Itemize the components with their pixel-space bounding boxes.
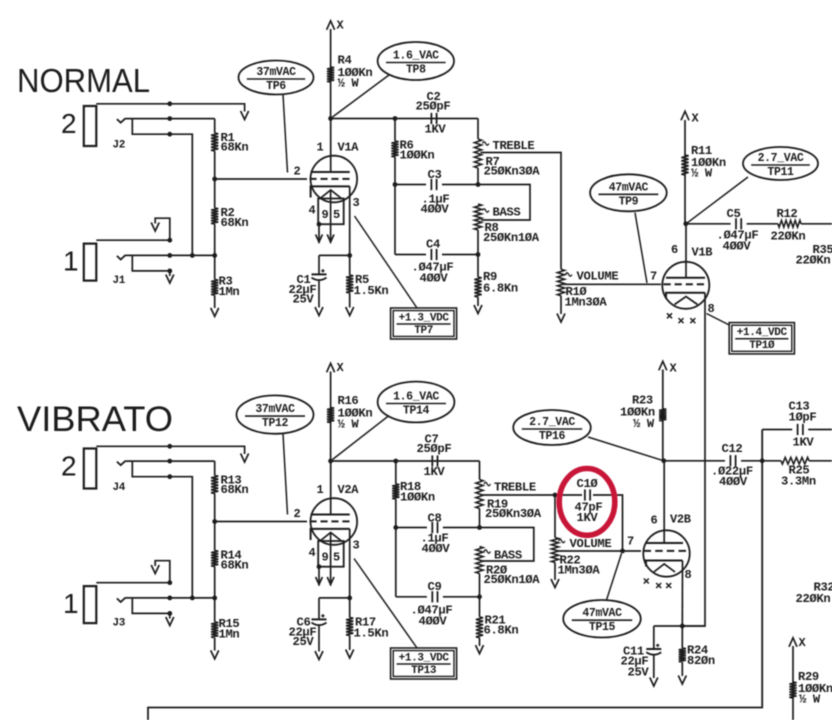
supply arrow X	[789, 638, 797, 647]
ground arrow	[241, 111, 249, 120]
svg-text:7: 7	[627, 535, 634, 549]
svg-text:22ØKn: 22ØKn	[796, 254, 831, 268]
svg-text:2.7_VAC: 2.7_VAC	[758, 152, 804, 165]
V1B cathode pin 8 lead	[682, 293, 705, 626]
capacitor C4	[430, 249, 432, 260]
svg-text:47mVAC: 47mVAC	[582, 607, 622, 620]
svg-text:5: 5	[333, 551, 340, 565]
svg-text:1.6_VAC: 1.6_VAC	[393, 50, 439, 63]
wire	[126, 118, 215, 120]
svg-text:TP9: TP9	[619, 195, 639, 208]
test point TP6 oval	[239, 61, 314, 95]
node	[167, 580, 172, 585]
heater pin 4 lead	[318, 567, 320, 586]
ground arrow	[151, 565, 159, 574]
node	[393, 116, 398, 121]
TP14 pointer line	[333, 416, 390, 460]
test point TP13 box	[391, 648, 457, 679]
resistor R23	[659, 409, 666, 421]
svg-text:4: 4	[309, 204, 316, 218]
V1B plate	[666, 277, 705, 279]
svg-text:TP14: TP14	[403, 405, 430, 418]
svg-text:X: X	[337, 361, 345, 375]
svg-text:25V: 25V	[628, 666, 650, 680]
treble wiper wire	[482, 494, 555, 496]
ground arrow	[474, 305, 482, 314]
svg-text:1ØØKn: 1ØØKn	[400, 149, 435, 163]
node	[212, 177, 217, 182]
bass wiper loop	[478, 185, 530, 221]
triode V2A envelope	[311, 498, 358, 545]
svg-text:+1.3_VDC: +1.3_VDC	[399, 653, 450, 665]
svg-text:25ØKn1ØA: 25ØKn1ØA	[484, 573, 541, 587]
resistor R18	[395, 461, 397, 484]
wire	[664, 460, 725, 462]
wire	[395, 528, 397, 597]
capacitor C8 row wire	[396, 527, 427, 529]
volume wiper wire	[557, 550, 641, 552]
svg-text:4ØØV: 4ØØV	[422, 542, 451, 556]
svg-text:37mVAC: 37mVAC	[256, 66, 296, 79]
resistor R1	[214, 119, 216, 133]
svg-text:1KV: 1KV	[793, 436, 815, 450]
potentiometer R20 BASS	[476, 547, 483, 574]
svg-text:4: 4	[309, 546, 316, 560]
wire	[477, 119, 479, 140]
svg-text:+1.3_VDC: +1.3_VDC	[399, 313, 450, 325]
capacitor C2	[430, 113, 432, 124]
svg-text:1KV: 1KV	[577, 511, 599, 525]
svg-text:V2A: V2A	[338, 483, 360, 497]
node	[661, 458, 666, 463]
wire	[331, 118, 478, 120]
svg-text:6.8Kn: 6.8Kn	[484, 624, 519, 638]
heater pin 5 lead	[330, 190, 332, 243]
node	[328, 459, 333, 464]
svg-text:47mVAC: 47mVAC	[609, 181, 649, 194]
test point TP8 oval	[378, 42, 454, 80]
cw mark	[484, 482, 490, 485]
heater connection x	[679, 318, 684, 323]
test point TP14 oval	[378, 382, 455, 423]
V2B heater	[654, 564, 675, 572]
V1B heater	[675, 297, 698, 305]
triode V1B envelope	[662, 262, 709, 309]
svg-text:25ØpF: 25ØpF	[416, 100, 451, 114]
jack J2 tip contact	[117, 118, 126, 122]
TP9 pointer line	[635, 213, 647, 283]
capacitor C1	[318, 255, 320, 274]
V2B plate lead pin 6	[663, 461, 665, 543]
ground arrow	[211, 650, 219, 659]
node	[347, 596, 352, 601]
svg-text:C5: C5	[727, 207, 741, 221]
resistor R2	[214, 179, 216, 208]
svg-text:BASS: BASS	[493, 206, 521, 220]
svg-text:1ØpF: 1ØpF	[789, 411, 817, 425]
svg-text:1Mn3ØA: 1Mn3ØA	[565, 296, 608, 310]
cw mark	[484, 550, 490, 553]
jack J4 tip contact	[117, 461, 126, 465]
svg-text:22ØKn: 22ØKn	[796, 592, 831, 606]
node	[477, 594, 482, 599]
potentiometer R8 BASS	[474, 204, 481, 230]
V2A plate	[311, 514, 350, 516]
wire	[479, 461, 481, 480]
ground arrow	[151, 223, 159, 232]
test point TP7 box	[391, 308, 457, 339]
node	[620, 549, 625, 554]
svg-text:4ØØV: 4ØØV	[421, 203, 450, 217]
node	[167, 444, 172, 449]
svg-text:4ØØV: 4ØØV	[419, 615, 448, 629]
TP13 pointer line	[354, 559, 417, 649]
capacitor C9	[431, 591, 433, 602]
V1A heater	[320, 190, 342, 199]
resistor R6	[394, 119, 396, 142]
V1A heater pin box	[318, 199, 344, 225]
TP15 pointer line	[607, 554, 622, 601]
node	[393, 525, 398, 530]
svg-text:68Kn: 68Kn	[221, 559, 249, 573]
svg-text:V1B: V1B	[692, 246, 713, 260]
svg-text:2: 2	[61, 108, 77, 139]
node	[167, 238, 172, 243]
svg-text:TP16: TP16	[539, 430, 566, 443]
svg-text:9: 9	[322, 208, 329, 222]
triode V1A envelope	[311, 156, 358, 203]
svg-text:TP12: TP12	[262, 417, 289, 430]
node	[167, 116, 172, 121]
svg-text:VOLUME: VOLUME	[570, 537, 612, 551]
jack J1 body	[84, 244, 97, 281]
capacitor C8	[431, 522, 433, 533]
ground arrow	[166, 617, 174, 626]
test point TP15 oval	[563, 600, 641, 638]
heater connection x	[656, 583, 661, 588]
capacitor C10	[584, 489, 586, 500]
heater connection x	[666, 583, 671, 588]
svg-text:J2: J2	[113, 140, 126, 152]
V2A heater	[320, 533, 342, 542]
svg-text:TP6: TP6	[266, 80, 286, 93]
heater arrow	[316, 577, 323, 585]
svg-text:NORMAL: NORMAL	[17, 62, 150, 99]
resistor R16	[327, 408, 334, 423]
jack J2 body	[84, 106, 97, 146]
svg-text:6: 6	[651, 514, 658, 528]
wire	[126, 597, 215, 599]
svg-text:3: 3	[353, 196, 360, 210]
svg-text:82Øn: 82Øn	[687, 654, 715, 668]
node	[476, 182, 481, 187]
V2A cathode	[311, 529, 350, 540]
heater arrow	[327, 577, 334, 585]
V2A plate lead pin 1	[330, 461, 332, 515]
resistor R17	[349, 598, 351, 618]
heater connection x	[644, 579, 649, 584]
svg-text:TREBLE: TREBLE	[494, 481, 536, 495]
node	[347, 253, 352, 258]
svg-text:1Mn: 1Mn	[219, 628, 240, 642]
svg-text:TREBLE: TREBLE	[493, 139, 535, 153]
svg-text:6: 6	[671, 243, 678, 257]
highlight ellipse around C10	[559, 469, 615, 536]
volume wiper wire	[563, 283, 661, 285]
V1A cathode	[311, 186, 350, 197]
V2A grid	[310, 520, 317, 522]
capacitor C11	[653, 626, 655, 649]
wire to tremolo section	[148, 430, 762, 720]
V1B plate lead pin 6	[685, 224, 687, 278]
svg-text:1: 1	[317, 483, 324, 497]
cw mark	[559, 539, 565, 542]
node	[683, 221, 688, 226]
ground arrow	[678, 676, 686, 685]
supply arrow X	[659, 361, 667, 370]
TP6 pointer line	[283, 94, 288, 172]
wire	[215, 178, 307, 180]
jack J1 tip contact	[117, 255, 126, 259]
svg-text:1: 1	[63, 246, 79, 277]
svg-text:1KV: 1KV	[425, 123, 447, 137]
svg-text:TP8: TP8	[406, 64, 426, 77]
svg-text:V1A: V1A	[338, 141, 360, 155]
node	[167, 596, 172, 601]
svg-text:C4: C4	[426, 238, 440, 252]
svg-text:9: 9	[322, 551, 329, 565]
svg-text:J4: J4	[113, 482, 126, 494]
svg-text:2: 2	[294, 165, 301, 179]
node	[190, 253, 195, 258]
wire	[96, 104, 244, 112]
supply arrow X	[327, 21, 335, 30]
wire	[215, 521, 307, 523]
triode V2B envelope	[643, 530, 689, 576]
V1A plate	[311, 171, 350, 173]
ground arrow	[346, 650, 354, 659]
svg-text:TP15: TP15	[589, 621, 616, 634]
potentiometer R7 TREBLE	[474, 139, 481, 168]
wire	[96, 446, 244, 454]
svg-text:J1: J1	[113, 275, 126, 287]
ground hook	[155, 218, 170, 240]
capacitor C13	[797, 424, 799, 435]
node	[167, 269, 172, 274]
test point TP10 box	[729, 323, 794, 354]
ground arrow	[551, 579, 559, 588]
cw mark	[483, 209, 489, 212]
svg-text:1: 1	[317, 141, 324, 155]
resistor R4	[327, 67, 334, 82]
svg-text:25ØpF: 25ØpF	[417, 442, 452, 456]
resistor R14	[214, 522, 216, 551]
node	[167, 132, 172, 137]
test point TP9 oval	[590, 174, 667, 211]
supply arrow X	[327, 363, 335, 372]
svg-text:V2B: V2B	[670, 513, 691, 527]
jack J3 body	[84, 586, 97, 623]
resistor R24	[681, 626, 683, 648]
wire	[96, 582, 170, 584]
supply arrow X	[681, 111, 689, 120]
svg-text:C3: C3	[428, 168, 442, 182]
svg-text:+1.4_VDC: +1.4_VDC	[737, 327, 788, 339]
TP7 pointer line	[355, 216, 418, 308]
ground stub	[169, 613, 171, 618]
treble wiper wire	[481, 153, 562, 270]
node	[212, 596, 217, 601]
heater pin 5 lead	[330, 533, 332, 586]
svg-text:C9: C9	[428, 580, 442, 594]
svg-text:VOLUME: VOLUME	[577, 270, 619, 284]
svg-text:X: X	[799, 636, 807, 650]
resistor R12	[778, 220, 801, 227]
svg-text:1Mn3ØA: 1Mn3ØA	[558, 564, 601, 578]
svg-text:25ØKn3ØA: 25ØKn3ØA	[484, 165, 541, 179]
capacitor C13 branch	[762, 429, 792, 431]
svg-text:1Mn: 1Mn	[219, 285, 240, 299]
svg-text:5: 5	[333, 208, 340, 222]
node	[167, 253, 172, 258]
svg-text:R12: R12	[777, 207, 798, 221]
node	[167, 459, 172, 464]
node	[477, 525, 482, 530]
V2B cathode pin 8 lead	[681, 561, 683, 627]
capacitor C3 row wire	[395, 184, 426, 186]
V1B grid	[664, 283, 671, 285]
test point TP12 oval	[237, 395, 314, 433]
svg-text:25V: 25V	[293, 293, 315, 307]
node	[212, 519, 217, 524]
ground arrow	[211, 308, 219, 317]
wire	[319, 254, 350, 256]
ground arrow	[476, 645, 484, 654]
wire	[801, 223, 832, 225]
svg-text:68Kn: 68Kn	[221, 483, 249, 497]
resistor R25	[781, 457, 809, 464]
svg-text:C1Ø: C1Ø	[577, 477, 599, 491]
bass wiper loop	[480, 528, 534, 562]
svg-text:2: 2	[294, 507, 301, 521]
svg-text:3: 3	[353, 539, 360, 553]
capacitor C9 row wire	[396, 596, 427, 598]
TP8 pointer line	[333, 75, 390, 117]
svg-text:22ØKn: 22ØKn	[771, 230, 806, 244]
node	[476, 252, 481, 257]
wire	[96, 239, 170, 241]
ground stub	[169, 271, 171, 276]
svg-text:2: 2	[61, 451, 77, 482]
jack J4 body	[84, 449, 97, 489]
V1A grid	[310, 178, 317, 180]
V1A plate lead pin 1	[330, 119, 332, 173]
svg-text:X: X	[670, 362, 678, 376]
resistor R5	[349, 255, 351, 275]
svg-text:½ W: ½ W	[338, 77, 360, 91]
svg-text:4ØØV: 4ØØV	[719, 475, 748, 489]
wire	[331, 460, 480, 462]
wire	[394, 185, 396, 255]
node	[167, 474, 172, 479]
potentiometer R19 TREBLE	[476, 480, 483, 509]
cathode pin 3 lead	[349, 186, 351, 255]
TP11 pointer line	[686, 177, 748, 224]
V1B cathode	[666, 293, 705, 299]
test point TP11 oval	[743, 147, 818, 180]
svg-text:2.7_VAC: 2.7_VAC	[529, 416, 575, 429]
svg-text:½ W: ½ W	[691, 167, 713, 181]
node	[760, 458, 765, 463]
svg-text:68Kn: 68Kn	[221, 216, 249, 230]
svg-text:½ W: ½ W	[338, 418, 360, 432]
svg-text:C8: C8	[428, 512, 442, 526]
svg-text:TP13: TP13	[411, 665, 437, 677]
svg-text:4ØØV: 4ØØV	[420, 272, 449, 286]
resistor R13	[214, 461, 216, 475]
ground arrow	[166, 275, 174, 284]
V2B plate	[646, 542, 684, 544]
node	[167, 101, 172, 106]
heater connection x	[667, 313, 672, 318]
svg-text:4ØØV: 4ØØV	[723, 240, 752, 254]
node	[680, 624, 685, 629]
svg-text:1.5Kn: 1.5Kn	[354, 627, 389, 641]
svg-text:1.6_VAC: 1.6_VAC	[393, 391, 439, 404]
node	[553, 493, 558, 498]
wire	[132, 598, 170, 614]
node	[393, 182, 398, 187]
resistor R21	[479, 597, 481, 617]
wire	[686, 223, 731, 225]
svg-text:TP11: TP11	[767, 166, 794, 179]
resistor R11	[681, 155, 688, 175]
ground arrow	[557, 314, 565, 323]
svg-text:VIBRATO: VIBRATO	[17, 400, 173, 439]
resistor R29	[789, 682, 796, 698]
node	[317, 222, 322, 227]
node	[317, 564, 322, 569]
svg-text:6.8Kn: 6.8Kn	[483, 282, 518, 296]
node	[393, 459, 398, 464]
svg-text:1: 1	[63, 588, 79, 619]
svg-text:X: X	[692, 112, 700, 126]
wire	[319, 597, 350, 599]
wire	[762, 460, 781, 462]
jack J3 tip contact	[117, 598, 126, 602]
node	[212, 253, 217, 258]
svg-text:25ØKn1ØA: 25ØKn1ØA	[483, 231, 540, 245]
TP16 pointer line	[588, 437, 664, 461]
potentiometer R10 VOLUME	[557, 269, 564, 295]
capacitor C6	[318, 598, 320, 620]
capacitor C10 branch	[555, 494, 582, 496]
wire	[126, 460, 215, 462]
wire	[132, 119, 192, 256]
heater connection x	[690, 318, 695, 323]
TP10 pointer line	[707, 314, 730, 326]
cathode pin 3 lead	[349, 529, 351, 598]
wire	[654, 625, 705, 627]
capacitor C4 row wire	[395, 254, 426, 256]
svg-text:1KV: 1KV	[424, 465, 446, 479]
capacitor C3	[430, 179, 432, 190]
svg-text:1ØØKn: 1ØØKn	[400, 491, 435, 505]
resistor R3	[214, 255, 216, 279]
cw mark	[566, 273, 572, 276]
svg-text:C12: C12	[722, 442, 743, 456]
heater arrow	[316, 235, 323, 243]
